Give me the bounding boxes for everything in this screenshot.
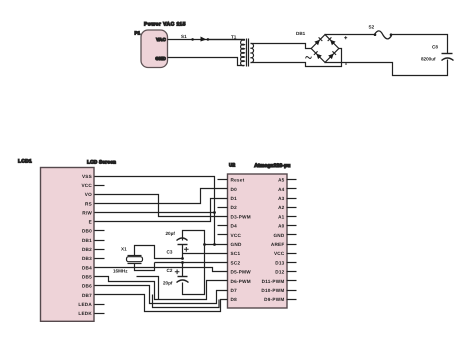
svg-text:Atmega328-pu: Atmega328-pu <box>254 163 290 169</box>
stub U2 D11-PWM <box>287 280 297 282</box>
svg-text:S1: S1 <box>181 34 187 39</box>
node C3/SC1 junction <box>181 257 184 260</box>
stub U2 D2 <box>218 207 228 209</box>
svg-text:DB1: DB1 <box>296 31 306 36</box>
wire S1 to T1 primary <box>209 40 245 41</box>
svg-text:A4: A4 <box>278 187 285 192</box>
wire R/W to GND net <box>95 212 215 214</box>
crystal X1 <box>113 246 143 273</box>
core <box>246 39 248 67</box>
svg-text:A5: A5 <box>278 178 285 183</box>
C3 straight plate <box>178 244 188 246</box>
svg-text:8200uf: 8200uf <box>421 56 436 61</box>
wire C2 top to SC2 junction <box>182 263 184 277</box>
svg-text:D10-PWM: D10-PWM <box>261 288 284 293</box>
LCD block LCD1 <box>18 159 116 322</box>
stub U2 A3 <box>287 198 297 200</box>
svg-text:T1: T1 <box>231 34 237 39</box>
S1 arrow <box>201 37 207 42</box>
svg-text:SC2: SC2 <box>231 260 241 265</box>
S2 fuse squiggle <box>375 31 392 39</box>
node C2/SC2 junction <box>181 261 184 264</box>
stub U2 A0 <box>287 225 297 227</box>
svg-text:DB2: DB2 <box>82 247 92 252</box>
stub LCD LEDA <box>95 304 105 306</box>
capacitor C3 <box>166 231 189 255</box>
svg-text:D6-PWM: D6-PWM <box>231 279 251 284</box>
S2 terminal dot <box>374 33 377 36</box>
svg-text:D11-PWM: D11-PWM <box>262 279 285 284</box>
C3 plus mark <box>184 247 189 252</box>
wire X1 top to SC1 net <box>135 246 183 259</box>
svg-text:A0: A0 <box>278 224 285 229</box>
wire secondary bottom to DB1 right <box>251 49 342 67</box>
svg-text:SC1: SC1 <box>231 251 241 256</box>
stub U2 D9-PWM <box>287 299 297 301</box>
stub U2 A4 <box>287 188 297 190</box>
svg-text:A2: A2 <box>278 205 285 210</box>
svg-text:Reset: Reset <box>231 178 245 183</box>
minus mark <box>345 63 347 65</box>
svg-text:Power VAC 115: Power VAC 115 <box>144 22 186 28</box>
svg-text:VO: VO <box>85 192 92 197</box>
svg-text:D3-PWM: D3-PWM <box>231 214 251 219</box>
stub LCD DB2 <box>95 249 105 251</box>
C8 curved plate <box>442 58 454 61</box>
wire SC1 to U2 <box>183 253 228 255</box>
stub U2 GND right <box>287 234 297 236</box>
svg-text:LEDA: LEDA <box>78 302 92 307</box>
U2 right pin labels <box>261 178 285 303</box>
wire X1 bottom to SC2 net <box>135 263 155 271</box>
node R/W junction <box>213 211 216 214</box>
stub U2 D10-PWM <box>287 290 297 292</box>
X1 bottom plate <box>128 263 142 265</box>
svg-text:C2: C2 <box>167 268 173 273</box>
svg-text:D2: D2 <box>231 205 238 210</box>
svg-text:VCC: VCC <box>274 251 285 256</box>
svg-text:DB6: DB6 <box>82 284 92 289</box>
stub U2 A5 <box>287 179 297 181</box>
U2 left pin labels <box>231 178 252 303</box>
svg-text:D8: D8 <box>231 297 238 302</box>
connector P1 <box>135 22 186 68</box>
wire E to D1 <box>95 199 228 222</box>
svg-text:X1: X1 <box>121 246 127 251</box>
svg-text:D5-PMW: D5-PMW <box>231 270 252 275</box>
svg-text:20pf: 20pf <box>163 281 173 286</box>
svg-text:D1: D1 <box>231 196 238 201</box>
node GND junction 2 <box>213 243 216 246</box>
svg-text:VSS: VSS <box>82 174 92 179</box>
wire C3 bottom to SC1 junction <box>182 245 184 259</box>
svg-text:D9-PWM: D9-PWM <box>264 297 284 302</box>
wire DB4 to D5 <box>95 268 228 272</box>
svg-text:GND: GND <box>155 56 166 61</box>
svg-text:RS: RS <box>85 201 92 206</box>
svg-text:D12: D12 <box>275 270 284 275</box>
capacitor C8 <box>421 45 454 62</box>
svg-text:DB1: DB1 <box>82 238 92 243</box>
svg-text:P1: P1 <box>135 31 141 36</box>
bridge rectifier DB1 <box>296 31 347 65</box>
svg-text:A1: A1 <box>278 214 285 219</box>
wire S2 to C8 <box>391 35 448 54</box>
stub U2 VCC right <box>287 253 297 255</box>
IC U2 Atmega328-pu <box>228 163 291 309</box>
stub U2 Reset <box>218 179 228 181</box>
S2 terminal dot 2 <box>390 33 393 36</box>
node GND junction 1 <box>203 243 206 246</box>
wire DB6 to D7 <box>95 286 228 304</box>
stub U2 A2 <box>287 207 297 209</box>
C2 straight plate <box>178 276 188 278</box>
diode on bottom-right edge <box>328 54 334 60</box>
fuse S2 <box>369 25 393 39</box>
wire DB7 to D8 <box>95 295 228 312</box>
LCD pin labels <box>78 174 92 316</box>
C8 positive plate <box>442 53 453 55</box>
X1 top plate <box>128 255 142 257</box>
svg-text:LCD1: LCD1 <box>18 159 32 165</box>
C2 curved plate <box>177 280 189 283</box>
C2 plus mark <box>175 270 180 275</box>
stub U2 VCC <box>218 234 228 236</box>
P1 body <box>141 30 168 68</box>
U2 body <box>228 174 288 308</box>
stub U2 AREF <box>287 244 297 246</box>
stub LCD VCC <box>95 185 105 187</box>
wire GND to T1 primary bottom <box>168 58 245 66</box>
svg-text:16MHz: 16MHz <box>113 269 128 274</box>
AC squiggle mark <box>305 55 312 60</box>
svg-text:GND: GND <box>231 242 242 247</box>
svg-text:LEDK: LEDK <box>78 311 92 316</box>
wire C3 top to GND loop <box>183 231 205 295</box>
svg-text:D0: D0 <box>231 187 238 192</box>
svg-text:D4: D4 <box>231 224 238 229</box>
secondary coil <box>251 43 254 62</box>
stub U2 D4 <box>218 225 228 227</box>
svg-text:DB0: DB0 <box>82 229 92 234</box>
DB1 diamond <box>311 35 339 63</box>
capacitor C2 <box>163 268 189 286</box>
wire DB1 top to S2 <box>325 34 375 36</box>
svg-text:DB5: DB5 <box>82 275 92 280</box>
wire RS to D0 <box>95 189 228 204</box>
wire secondary top to DB1 left <box>251 44 312 49</box>
svg-text:C8: C8 <box>432 45 438 50</box>
wire SC2 to U2 <box>155 262 228 264</box>
stub U2 A1 <box>287 216 297 218</box>
wire DB5 alt segment <box>137 277 159 300</box>
stub LCD LEDK <box>95 313 105 315</box>
stub U2 D13 <box>287 262 297 264</box>
stub U2 D12 <box>287 271 297 273</box>
svg-text:D7: D7 <box>231 288 238 293</box>
svg-text:DB7: DB7 <box>82 293 92 298</box>
svg-text:U2: U2 <box>229 163 235 169</box>
diode on top-left edge <box>314 40 320 46</box>
svg-text:DB4: DB4 <box>82 265 92 270</box>
X1 body <box>127 257 143 262</box>
svg-text:C3: C3 <box>167 250 173 255</box>
LCD1 body <box>41 168 95 322</box>
svg-text:E: E <box>89 220 92 225</box>
C3 curved plate <box>177 238 188 241</box>
diode on bottom-left edge <box>316 54 322 60</box>
svg-text:GND: GND <box>273 233 284 238</box>
svg-text:D13: D13 <box>275 260 284 265</box>
svg-text:A3: A3 <box>278 196 285 201</box>
wire D8 sub-run <box>153 295 220 308</box>
svg-text:20pf: 20pf <box>166 231 176 236</box>
svg-text:VAC: VAC <box>156 37 166 42</box>
stub LCD DB3 <box>95 258 105 260</box>
primary coil <box>241 40 245 66</box>
svg-text:S2: S2 <box>369 25 375 30</box>
plus mark <box>344 36 347 39</box>
wire VO to D3-PWM <box>95 195 228 217</box>
S1 terminal dot <box>191 38 194 41</box>
S1 terminal dot 2 <box>207 38 210 41</box>
svg-text:AREF: AREF <box>271 242 285 247</box>
transformer T1 <box>231 34 254 66</box>
stub LCD DB0 <box>95 230 105 232</box>
wire DB5 to D6 <box>95 277 228 300</box>
stub LCD DB1 <box>95 240 105 242</box>
svg-text:LCD Screen: LCD Screen <box>87 160 116 166</box>
svg-text:VCC: VCC <box>81 183 92 188</box>
svg-text:VCC: VCC <box>231 233 242 238</box>
svg-text:R/W: R/W <box>82 210 92 215</box>
wire U2 GND pin line <box>205 244 228 246</box>
wire VSS to GND net <box>95 177 215 245</box>
svg-text:DB3: DB3 <box>82 256 92 261</box>
wire DB1 bottom to C8 bottom <box>325 60 448 76</box>
switch S1 <box>181 34 209 41</box>
diode on top-right edge <box>330 40 336 46</box>
wire VAC to S1 <box>168 39 245 41</box>
